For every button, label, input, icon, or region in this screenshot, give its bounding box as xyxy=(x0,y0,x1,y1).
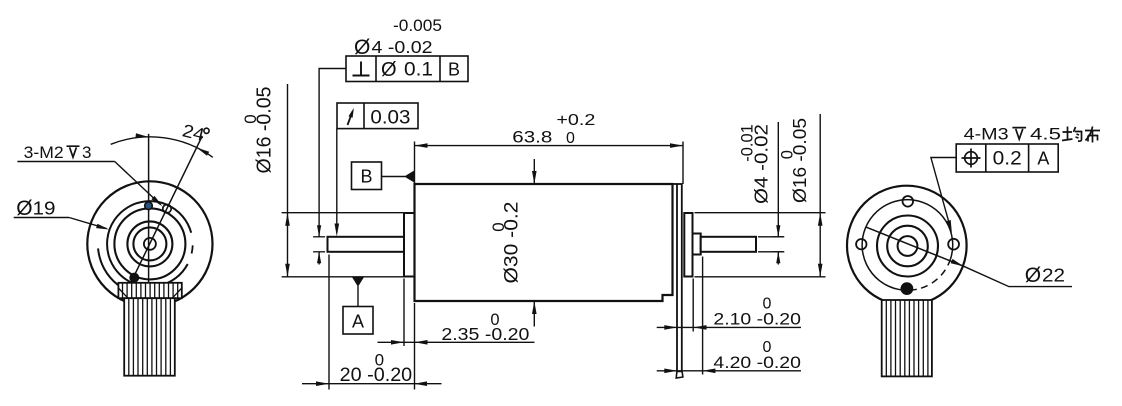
svg-text:A: A xyxy=(1037,149,1049,169)
extension line 20/2.35 right at body face xyxy=(414,303,416,390)
dimension dia30 lower arrow xyxy=(533,301,535,327)
screw hole C (lower left, filled) xyxy=(130,273,139,282)
FCF3 position feature control frame xyxy=(956,144,1058,172)
extension line rear shaft bottom xyxy=(758,251,784,253)
extension line rear shaft top xyxy=(758,236,784,238)
FCF2 circular runout feature control frame xyxy=(337,103,418,129)
svg-text:4.5: 4.5 xyxy=(1030,125,1061,144)
svg-text:B: B xyxy=(448,60,460,80)
left view angled centerline through screw holes xyxy=(131,136,203,283)
motor body cylinder xyxy=(415,184,673,301)
extension line 4.20 right xyxy=(702,257,704,375)
screw hole B (upper right) xyxy=(163,205,171,213)
svg-text:63.8: 63.8 xyxy=(512,128,552,147)
dimension dia16 right xyxy=(819,114,821,277)
right view diagonal centerline xyxy=(866,227,964,266)
svg-text:Ø4 -0.02: Ø4 -0.02 xyxy=(751,124,772,204)
svg-text:Ø: Ø xyxy=(16,197,32,220)
right view ring r19.5 xyxy=(887,226,928,267)
right view screw hole bottom (filled) xyxy=(901,283,913,295)
dimension line 63.8 xyxy=(415,145,684,147)
svg-text:2.10 -0.20: 2.10 -0.20 xyxy=(713,310,801,329)
rear shaft xyxy=(701,237,756,252)
svg-text:0: 0 xyxy=(489,222,508,231)
dimension dia4 left and perpendicularity FCF leader xyxy=(319,69,346,237)
extension line 63.8 left above body xyxy=(414,142,416,185)
screw hole A (highlighted, top) xyxy=(145,202,153,210)
front flex connector wide part xyxy=(118,283,181,298)
extension line 2.35 left at flange face xyxy=(403,279,405,347)
dimension dia16 left xyxy=(287,84,289,277)
24deg arc arrow at vertical centerline xyxy=(135,133,148,138)
dimension dia30 upper arrow xyxy=(533,159,535,184)
arrowhead of dia19 leader xyxy=(96,224,109,230)
svg-text:0: 0 xyxy=(241,114,260,123)
svg-text:22: 22 xyxy=(1042,265,1065,286)
svg-text:4.20 -0.20: 4.20 -0.20 xyxy=(713,353,801,372)
chinese text jun bu (evenly distributed) xyxy=(1062,127,1100,143)
svg-text:Ø16 -0.05: Ø16 -0.05 xyxy=(254,87,276,174)
svg-text:0.03: 0.03 xyxy=(370,108,410,129)
front ribbon cable hatch lines xyxy=(128,298,130,376)
dimension line 20 xyxy=(302,383,442,385)
left end view outer circle (motor front face) xyxy=(87,181,212,306)
svg-text:0: 0 xyxy=(763,339,772,356)
left view partial coil arc lower-left xyxy=(98,248,118,285)
right view ring r30.5 xyxy=(877,216,938,277)
left view shaft hole circle xyxy=(144,238,156,250)
right view bolt circle solid arc xyxy=(862,200,953,291)
leader line for 3-M2 label xyxy=(17,161,114,163)
svg-text:2.35 -0.20: 2.35 -0.20 xyxy=(441,324,529,344)
extension line 20 left at shaft end xyxy=(328,255,330,390)
arrowhead of 3-M2 leader xyxy=(151,196,162,207)
right view screw hole right xyxy=(948,239,959,250)
circular runout FCF leader xyxy=(336,129,338,233)
dimension dia4 right xyxy=(777,122,779,237)
left view coil ring r22.5 xyxy=(127,221,172,266)
svg-text:3: 3 xyxy=(82,143,91,162)
datum A flag xyxy=(343,307,373,335)
rear boss xyxy=(693,234,701,255)
extension line rear flange top right xyxy=(695,212,826,214)
front flex connector corner slants xyxy=(118,288,128,298)
svg-text:0: 0 xyxy=(375,351,384,370)
svg-text:0: 0 xyxy=(763,296,772,313)
rear bearing flange xyxy=(684,213,692,277)
left view broken ring dash segment xyxy=(192,245,193,253)
svg-text:19: 19 xyxy=(33,199,56,219)
24deg arc arrow at angled line xyxy=(197,148,210,156)
left view coil ring r16.5 xyxy=(133,227,166,260)
extension line 63.8 right xyxy=(682,142,684,185)
svg-text:+0.2: +0.2 xyxy=(556,112,595,129)
svg-text:Ø: Ø xyxy=(381,59,397,81)
label 24 degrees xyxy=(180,120,206,145)
dia22 arrowhead on outer circle xyxy=(951,259,964,266)
right view center shaft circle xyxy=(898,236,918,256)
extension line rear flange bottom right xyxy=(695,276,826,278)
front flex connector hatch lines xyxy=(122,283,124,298)
extension line flange bottom left xyxy=(282,276,404,278)
datum B filled triangle xyxy=(404,171,414,183)
dia22 leader xyxy=(964,266,1073,286)
FCF1 perpendicularity feature control frame xyxy=(346,56,468,82)
datum A filled triangle xyxy=(352,277,364,287)
svg-text:0: 0 xyxy=(778,150,796,159)
svg-text:0.2: 0.2 xyxy=(993,149,1022,170)
FCF3 leader to screw hole xyxy=(931,158,956,230)
svg-text:Ø16 -0.05: Ø16 -0.05 xyxy=(789,118,810,203)
datum B flag xyxy=(352,162,382,190)
dimension line 2.10 xyxy=(657,326,801,328)
dimension line 4.20 xyxy=(657,370,801,372)
left view broken coil ring r43.5 xyxy=(107,201,191,287)
svg-text:0: 0 xyxy=(566,130,575,147)
svg-text:-0.005: -0.005 xyxy=(393,17,442,35)
FCF1 perpendicularity symbol xyxy=(353,62,370,76)
svg-text:4 -0.02: 4 -0.02 xyxy=(372,37,433,57)
svg-text:B: B xyxy=(360,167,372,187)
right view screw hole top xyxy=(903,196,914,207)
rear FPC tail plate xyxy=(677,184,682,372)
right view bolt circle dashed arc xyxy=(917,259,951,289)
svg-text:Ø: Ø xyxy=(1025,264,1041,287)
leader line for dia19 label xyxy=(14,217,69,219)
right view screw hole left xyxy=(856,239,866,249)
svg-text:0.1: 0.1 xyxy=(404,60,433,81)
rear ribbon cable hatch lines xyxy=(885,300,887,376)
FCF2 runout symbol arrow xyxy=(348,112,353,126)
extension line flange top left xyxy=(282,212,404,214)
body top edge extension over FPC gap xyxy=(673,183,678,185)
svg-text:Ø30 -0.2: Ø30 -0.2 xyxy=(502,202,523,284)
front shaft xyxy=(328,237,405,252)
dimension line 2.35 xyxy=(378,341,535,343)
rear ribbon cable xyxy=(882,300,932,376)
front ribbon cable body xyxy=(124,298,175,376)
left view vertical centerline xyxy=(148,134,150,283)
rear FPC tail end cap xyxy=(676,372,683,379)
left view 24deg dimension arc xyxy=(111,137,213,157)
extension line 2.10 right xyxy=(692,279,694,332)
svg-text:4-M3: 4-M3 xyxy=(964,125,1009,144)
svg-text:A: A xyxy=(352,312,364,332)
front bearing flange xyxy=(404,213,415,277)
svg-text:3-M2: 3-M2 xyxy=(24,143,64,162)
left view coil ring r35.5 xyxy=(114,208,185,279)
right end view outer circle xyxy=(847,186,967,306)
svg-text:0: 0 xyxy=(490,311,499,329)
FCF3 position symbol xyxy=(965,152,978,165)
